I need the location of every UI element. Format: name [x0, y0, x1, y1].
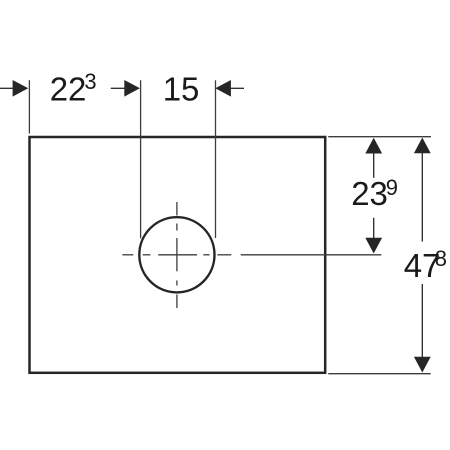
arrow left of 15 dimension — [111, 80, 140, 97]
dimension text 22.3 — [50, 69, 97, 108]
hole circle — [139, 217, 214, 292]
extension line top right (from plate top edge) — [328, 136, 431, 138]
svg-text:22: 22 — [50, 71, 87, 108]
dimension line 23.9 with arrows — [365, 138, 382, 254]
extension line hole left (top dim) — [140, 80, 142, 238]
extension line hole right (top dim) — [215, 80, 217, 238]
svg-text:9: 9 — [386, 175, 398, 200]
dimension text 47.8 — [404, 246, 447, 284]
hole vertical center line — [176, 202, 178, 308]
extension line left edge (top dim) — [28, 80, 30, 133]
svg-text:3: 3 — [84, 69, 96, 94]
plate outline — [30, 137, 326, 373]
arrow right of 15 dimension — [215, 80, 244, 97]
svg-text:15: 15 — [163, 71, 200, 108]
dimension line 47.8 with arrows — [414, 138, 431, 373]
extension line bottom right (from plate bottom edge) — [328, 373, 431, 375]
svg-text:23: 23 — [351, 175, 388, 212]
hole horizontal center line — [122, 254, 231, 256]
svg-text:8: 8 — [435, 246, 447, 271]
dimension text 23.9 — [351, 175, 398, 212]
arrow left of 22.3 dimension — [0, 80, 28, 97]
extension line from hole center to 23.9 dimension — [241, 254, 382, 256]
